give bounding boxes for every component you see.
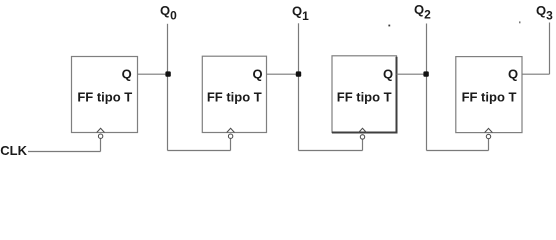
svg-text:Q: Q [383, 66, 393, 81]
svg-text:FF tipo T: FF tipo T [337, 90, 392, 105]
svg-text:Q: Q [122, 66, 132, 81]
svg-text:Q3: Q3 [536, 3, 553, 23]
svg-text:FF tipo T: FF tipo T [462, 90, 517, 105]
svg-text:Q: Q [508, 66, 518, 81]
svg-text:CLK: CLK [0, 143, 27, 158]
svg-text:Q2: Q2 [414, 2, 431, 22]
svg-text:Q: Q [252, 66, 262, 81]
svg-text:FF tipo T: FF tipo T [77, 90, 132, 105]
svg-text:FF tipo T: FF tipo T [207, 90, 262, 105]
svg-text:Q1: Q1 [292, 4, 309, 24]
svg-text:Q0: Q0 [160, 3, 177, 23]
